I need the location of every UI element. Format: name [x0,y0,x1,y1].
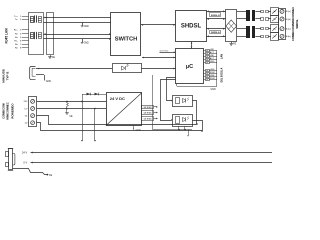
svg-text:GND: GND [46,81,51,83]
svg-text:MINICONNEC: MINICONNEC [6,102,10,119]
svg-text:LINE: LINE [210,69,215,71]
optocoupler DO2 [173,115,193,127]
wire microcontroller ground [176,84,178,87]
svg-text:DSL B DSL A: DSL B DSL A [220,67,223,82]
surge arrester Z1 [271,8,279,16]
svg-text:RJ45 LAN: RJ45 LAN [5,28,9,44]
svg-text:GND: GND [210,61,215,63]
svg-text:Rx-: Rx- [14,40,18,42]
wire T-BUS to FE [13,169,47,175]
surge arrester Z4 [271,33,279,41]
bus tag down opto [188,130,190,136]
surge protector bridge [226,10,237,42]
fuse F3 on line 3 [255,28,261,30]
wire switch to microcontroller serial [142,57,176,59]
svg-text:STAT: STAT [210,77,216,80]
LED STAT [204,79,206,81]
rail tag 1.2 V DC [142,117,154,121]
svg-text:1.5 V DC: 1.5 V DC [143,112,152,114]
rail tag 3.3 V DC [142,106,154,109]
wire LAN pair1+ [44,17,112,19]
fuse F1 on line 1 [255,11,261,13]
wire opto return rail [152,75,154,130]
svg-text:3.3 V DC: 3.3 V DC [143,107,152,109]
screw terminal SHDSL pin A (a) [280,27,284,31]
LED cathode rail [216,51,218,87]
screw terminal 24V [31,100,35,104]
svg-text:Tx-: Tx- [15,19,18,21]
transformer T2 (Rx pair) [31,33,34,39]
transient suppressor to FE [67,102,69,109]
screw terminal D1 [31,114,35,118]
screw terminal 0 V [31,107,35,111]
svg-text:SHDSL A: SHDSL A [211,31,220,34]
screw terminal SHDSL pin A (b) [280,34,284,38]
wire SHDSL line 4 [207,36,226,38]
svg-text:POWER/DO: POWER/DO [11,104,15,119]
svg-text:LINE: LINE [210,75,215,77]
wire SHDSL to microcontroller [191,42,193,49]
svg-text:FE: FE [49,175,52,177]
RJ45 magnetics box [29,13,44,55]
svg-text:24 V DC: 24 V DC [110,96,125,101]
isolator box on USB line [113,64,142,73]
stub opto2 pin A [178,126,180,130]
wire D2 output [37,123,203,131]
svg-text:GND: GND [211,89,216,91]
arrowhead into switch pair2+ [109,33,110,35]
screw terminal SHDSL pin B (a) [280,9,284,13]
screw terminal D2 [31,121,35,125]
wire microcontroller to DO2 [161,80,176,121]
svg-text:LNK: LNK [210,55,215,57]
svg-text:COMBICON/: COMBICON/ [2,103,6,119]
SHDSL terminal block body [279,9,286,40]
wire SHDSL line 3 [207,28,226,30]
svg-text:SWITCH: SWITCH [115,36,137,42]
optocoupler DO1 [173,96,193,107]
microcontroller U3 [176,49,204,84]
LED ACT [204,53,206,55]
arrow on pair2 [45,33,47,35]
wire LAN pair1- [44,22,112,24]
fuse F2 on line 2 [255,18,261,20]
svg-text:SHDSL: SHDSL [295,19,299,29]
svg-text:LAN: LAN [220,54,223,59]
SHDSL transceiver U2 [176,11,207,42]
diode D [95,93,99,96]
wire USB second stub [36,74,44,76]
bus tag down 0V [94,109,96,141]
diode OR-ing branch [82,94,84,101]
rail tag 1.5 V DC [142,111,154,115]
svg-text:1.2 V DC: 1.2 V DC [143,118,152,120]
svg-text:STAT: STAT [210,71,216,74]
wire microcontroller to DO1 [167,78,176,101]
LED LINE [204,70,206,72]
power terminal block body [29,97,37,127]
ground FE under choke box [50,55,52,57]
wire D1 output [37,116,197,125]
wire bridge to transformer A1 [237,28,247,30]
screw terminal SHDSL pin B (b) [280,17,284,21]
GND tag pair1 [82,23,84,26]
LED ACT [204,59,206,61]
svg-text:A (b): A (b) [286,35,291,38]
line transformer TR-A [246,26,250,38]
transformer T1 (Tx pair) [31,17,34,23]
svg-text:SHDSL: SHDSL [181,23,202,29]
svg-text:0 V: 0 V [23,162,27,165]
svg-text:A (a): A (a) [286,28,291,31]
svg-text:µC: µC [186,64,193,70]
svg-text:SHDSL B: SHDSL B [211,15,220,17]
GND tag pair2 [82,39,84,42]
surge arrester Z3 [271,25,279,33]
svg-text:GND: GND [84,43,89,45]
svg-text:24 V: 24 V [22,152,27,155]
svg-text:FE: FE [70,116,73,118]
T-BUS rail connector [9,149,13,170]
surge arrester Z2 [271,16,279,23]
LED GND [204,62,206,64]
mini USB socket [30,67,36,80]
DC/DC converter 24VDC [107,93,142,126]
arrow on pair1 [45,17,47,19]
wire 24V input [37,101,106,103]
arrowhead into switch pair2- [109,38,110,40]
wire LAN pair2- [44,38,112,40]
label SHDSL A [210,31,221,34]
svg-text:24V: 24V [24,101,28,103]
wire bridge to transformer B1 [237,11,247,13]
stub opto2 pin B [184,126,186,130]
wire SHDSL line 1 [207,11,226,13]
wire DO2 output to D2 [193,121,203,131]
LED LNK [204,50,206,52]
label SHDSL B [210,13,221,17]
diode D [87,93,91,96]
LED LNK [204,56,206,58]
wire USB data to isolator [36,68,112,70]
wire SWITCH to SHDSL [141,24,176,26]
ethernet switch U1 [111,13,141,56]
svg-text:0 V: 0 V [24,108,28,110]
svg-text:FE: FE [52,57,55,59]
bus tag down 24V [82,101,84,140]
wire isolator to microcontroller [142,68,176,70]
svg-text:LNK: LNK [210,49,215,51]
LED LINE [204,76,206,78]
common-mode choke box [47,13,54,55]
wire LAN pair2+ [44,34,112,36]
svg-text:TYP B: TYP B [6,71,10,81]
GND tag under converter [133,126,135,130]
ground FE under surge bridge [231,42,233,44]
LED STAT [204,73,206,75]
svg-text:GND: GND [84,26,89,28]
wire DO1 output to D1 [193,101,197,125]
svg-text:FE: FE [233,43,236,45]
wire SHDSL line 2 [207,18,226,20]
GND stub USB [44,75,46,81]
line transformer TR-B [246,10,250,21]
wire 0V input [37,108,106,110]
fuse F4 on line 4 [255,36,261,38]
